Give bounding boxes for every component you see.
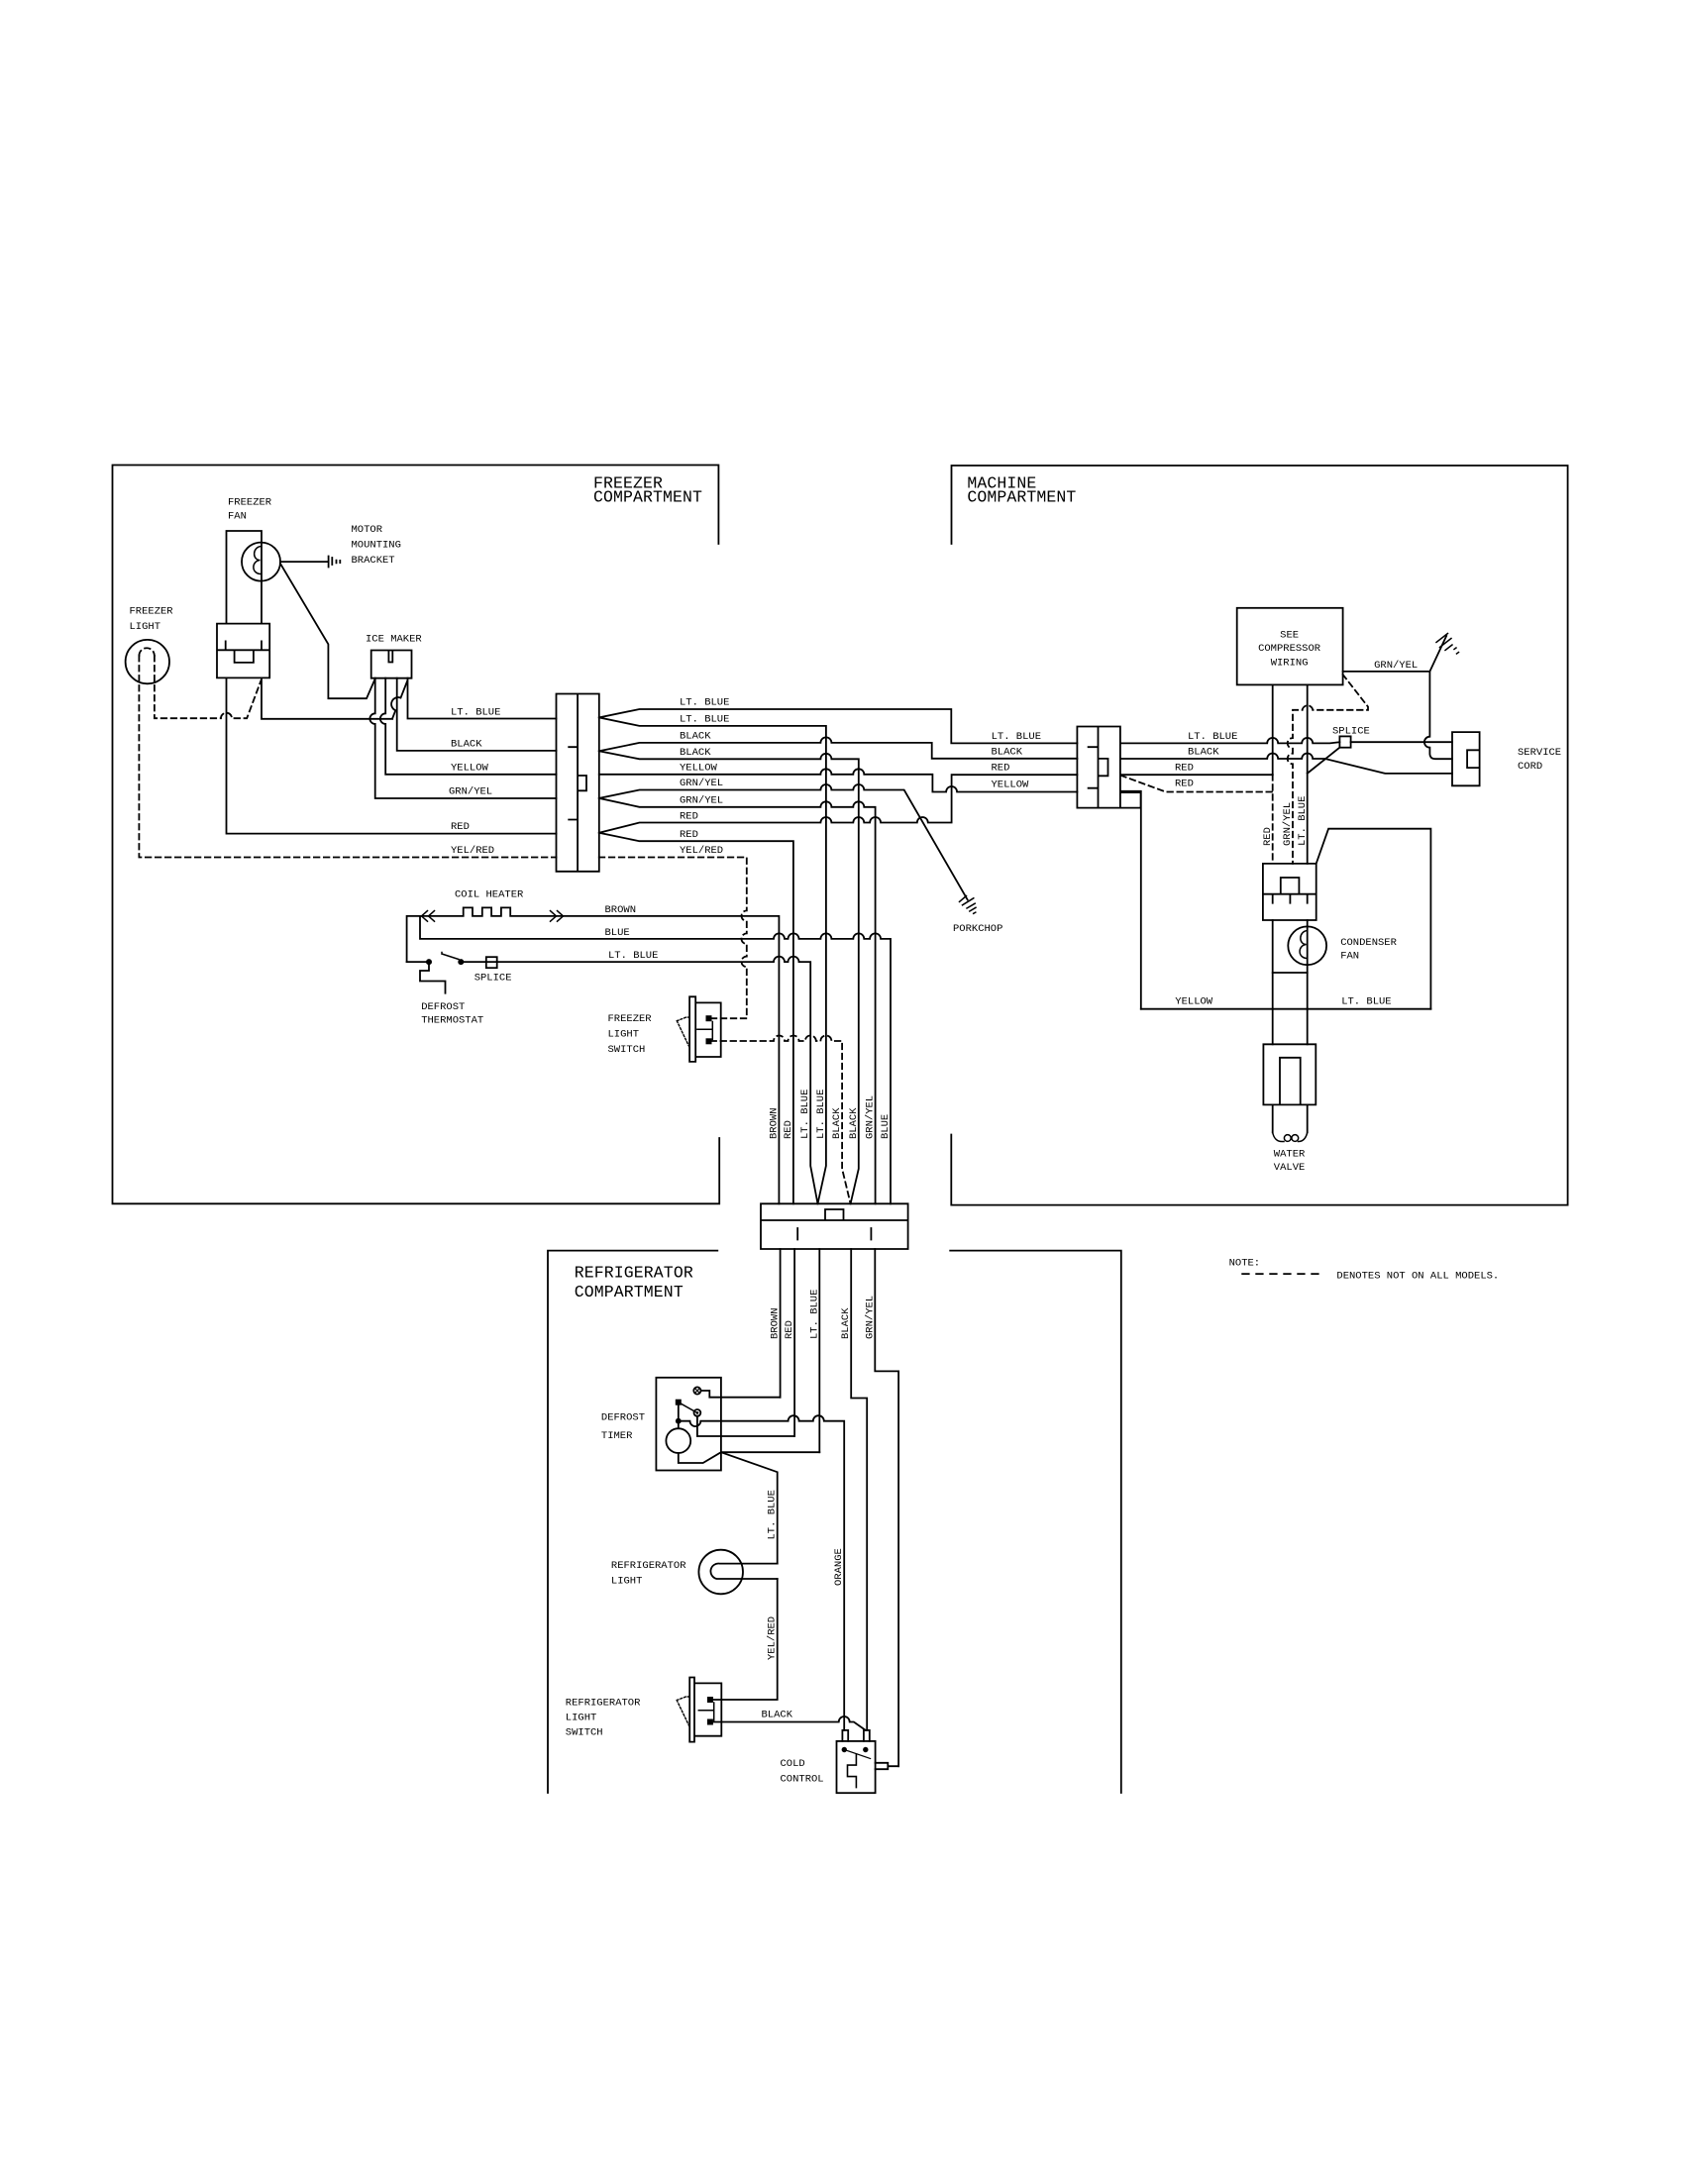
svg-text:GRN/YEL: GRN/YEL (865, 1095, 877, 1139)
compressor lead RED (1272, 684, 1274, 775)
svg-text:GRN/YEL: GRN/YEL (1282, 802, 1294, 846)
svg-text:COMPARTMENT: COMPARTMENT (575, 1283, 684, 1301)
svg-text:GRN/YEL: GRN/YEL (449, 786, 492, 798)
svg-text:ICE MAKER: ICE MAKER (366, 634, 422, 646)
wire BLACK below J3 (851, 1249, 867, 1730)
svg-text:PORKCHOP: PORKCHOP (953, 923, 1002, 935)
svg-text:YEL/RED: YEL/RED (451, 845, 494, 857)
svg-text:FREEZER: FREEZER (228, 497, 272, 509)
relay overload connector body (1263, 864, 1316, 920)
freezer light switch pin 1 (706, 1015, 712, 1021)
svg-text:SPLICE: SPLICE (474, 973, 512, 985)
defrost thermostat contact dots (426, 959, 432, 965)
svg-text:RED: RED (783, 1120, 794, 1139)
splice square on LT. BLUE (486, 957, 497, 968)
see compressor wiring box (1237, 608, 1343, 685)
wire freezer light left lead YEL/RED (dashed) (139, 656, 556, 858)
wire LT. BLUE below J3 (818, 1249, 820, 1452)
wire YELLOW / LT. BLUE bottom run (1141, 1008, 1431, 1010)
svg-text:LT. BLUE: LT. BLUE (815, 1090, 827, 1139)
wire splice diagonal to compressor lead (1308, 748, 1340, 774)
defrost timer motor (666, 1428, 690, 1453)
svg-text:BLACK: BLACK (762, 1710, 793, 1721)
svg-text:LT. BLUE: LT. BLUE (808, 1290, 820, 1339)
svg-text:RED: RED (784, 1320, 795, 1339)
water valve solenoid leads (1273, 1104, 1308, 1132)
defrost thermostat stem (420, 965, 446, 993)
svg-text:SEE: SEE (1280, 630, 1299, 642)
freezer light switch body (689, 996, 721, 1062)
defrost timer pin D (676, 1418, 682, 1424)
svg-text:LT. BLUE: LT. BLUE (1341, 996, 1391, 1008)
svg-text:BROWN: BROWN (605, 904, 637, 916)
svg-text:BLUE: BLUE (605, 927, 630, 939)
freezer fan connector plug (217, 624, 269, 678)
svg-text:DENOTES NOT ON ALL MODELS.: DENOTES NOT ON ALL MODELS. (1336, 1271, 1499, 1283)
svg-text:BLUE: BLUE (880, 1114, 892, 1139)
svg-text:THERMOSTAT: THERMOSTAT (421, 1015, 483, 1027)
defrost thermostat arm (442, 953, 459, 960)
svg-text:MOTOR: MOTOR (352, 524, 383, 536)
svg-text:REFRIGERATOR: REFRIGERATOR (566, 1698, 641, 1710)
defrost timer pin B to pin D link (678, 1405, 680, 1418)
svg-text:YELLOW: YELLOW (680, 763, 718, 775)
ice maker pin 4 wire to BLACK (397, 678, 557, 751)
cold control bellows (848, 1754, 857, 1788)
refrigerator light circle (698, 1550, 743, 1595)
wire BROWN below J3 (780, 1249, 782, 1398)
wire YELLOW stub J2 to condenser circuit (1120, 791, 1141, 1009)
svg-text:BLACK: BLACK (1188, 747, 1219, 759)
refrigerator compartment border (548, 1251, 1121, 1793)
svg-text:REFRIGERATOR: REFRIGERATOR (611, 1560, 686, 1572)
wire GRN/YEL below J3 (875, 1249, 898, 1766)
svg-text:LT. BLUE: LT. BLUE (1297, 796, 1309, 846)
svg-text:FAN: FAN (1340, 951, 1359, 963)
wire defrost timer motor to LT. BLUE junction (679, 1452, 820, 1463)
wire fork RED upper (599, 775, 1078, 833)
condenser fan frame (1273, 920, 1308, 973)
motor mounting bracket symbol (329, 557, 341, 568)
svg-text:BLACK: BLACK (680, 731, 711, 743)
svg-text:LT. BLUE: LT. BLUE (451, 707, 500, 719)
svg-text:YELLOW: YELLOW (992, 780, 1030, 791)
ice maker body (371, 651, 412, 678)
freezer fan motor coil (254, 547, 262, 574)
wire BROWN coil heater line (407, 907, 780, 1203)
svg-text:SWITCH: SWITCH (566, 1727, 603, 1739)
svg-text:BROWN: BROWN (768, 1107, 780, 1139)
condenser fan coil (1300, 931, 1308, 959)
defrost timer pin C (694, 1409, 701, 1416)
svg-text:GRN/YEL: GRN/YEL (1374, 660, 1418, 672)
svg-text:DEFROST: DEFROST (601, 1412, 645, 1424)
freezer light switch bracket (697, 1022, 712, 1040)
connector J2 body (1077, 727, 1140, 808)
wire condenser to water valve right (1307, 973, 1309, 1044)
wire BLACK J2 to service cord (1120, 754, 1452, 774)
svg-text:YELLOW: YELLOW (451, 763, 489, 775)
svg-text:CONDENSER: CONDENSER (1340, 937, 1397, 949)
wire LT. BLUE J2 to splice (1120, 738, 1340, 744)
ground screw hatching (1436, 634, 1459, 655)
svg-text:GRN/YEL: GRN/YEL (680, 795, 723, 807)
svg-text:LIGHT: LIGHT (566, 1713, 597, 1724)
wire GRN/YEL down to service cord (1424, 672, 1452, 759)
wire RED dashed J2 to relay (1120, 776, 1272, 792)
wire splice to service cord LT. BLUE (1351, 741, 1452, 743)
svg-text:FREEZER: FREEZER (130, 606, 174, 618)
compressor lead RED dashed lower (1272, 775, 1274, 864)
svg-text:BLACK: BLACK (831, 1107, 843, 1139)
svg-text:LT. BLUE: LT. BLUE (608, 950, 658, 962)
defrost timer switch arm (679, 1403, 695, 1412)
machine compartment border (951, 466, 1567, 1205)
service cord plug (1452, 732, 1480, 785)
svg-text:WIRING: WIRING (1271, 658, 1309, 670)
wire fan motor to ice maker pin 1 (280, 564, 374, 698)
refrigerator light filament (710, 1564, 777, 1579)
ice maker pin 2 wire to GRN/YEL (369, 678, 556, 798)
wire LT. BLUE diagonal to ice maker pin 4 (with hop loop) (391, 680, 407, 718)
wire condenser to water valve left (1272, 973, 1274, 1044)
freezer light circle (126, 640, 169, 683)
refrigerator light switch bracket (698, 1703, 713, 1720)
svg-text:MOUNTING: MOUNTING (352, 540, 401, 552)
freezer compartment border (113, 466, 720, 1204)
svg-text:COMPRESSOR: COMPRESSOR (1258, 643, 1321, 655)
wire fork BLACK upper (599, 737, 1078, 758)
svg-text:LT. BLUE: LT. BLUE (767, 1490, 779, 1539)
water valve connector body (1263, 1044, 1316, 1104)
connector J3 body (761, 1203, 908, 1249)
coil heater break arrows (422, 911, 564, 922)
svg-text:NOTE:: NOTE: (1229, 1258, 1261, 1270)
refrigerator light switch pin 2 (707, 1719, 713, 1725)
freezer light switch pin 2 (706, 1038, 712, 1044)
svg-text:RED: RED (992, 763, 1010, 775)
svg-text:ORANGE: ORANGE (833, 1548, 845, 1586)
cold control switch arm (844, 1750, 870, 1759)
wire fork GRN/YEL upper to porkchop (599, 784, 968, 899)
wire fan connector to RED line (227, 677, 557, 833)
svg-text:GRN/YEL: GRN/YEL (680, 778, 723, 789)
defrost timer box (656, 1378, 721, 1471)
freezer fan motor circle (242, 543, 280, 581)
svg-text:BLACK: BLACK (992, 747, 1023, 759)
water valve solenoid coil (1273, 1132, 1284, 1141)
svg-text:REFRIGERATOR: REFRIGERATOR (575, 1264, 693, 1283)
wire refrigerator light switch pin2 BLACK to cold control (713, 1716, 866, 1730)
svg-text:LIGHT: LIGHT (611, 1576, 643, 1588)
svg-text:COLD: COLD (781, 1758, 805, 1770)
svg-text:BLACK: BLACK (451, 739, 482, 751)
svg-text:LT. BLUE: LT. BLUE (799, 1090, 811, 1139)
wire RED below J3 (793, 1249, 795, 1436)
wire fork GRN/YEL lower (599, 798, 876, 1203)
svg-text:RED: RED (680, 829, 698, 841)
svg-text:SWITCH: SWITCH (608, 1044, 646, 1056)
svg-text:BROWN: BROWN (770, 1307, 782, 1339)
condenser fan circle (1288, 926, 1326, 965)
ice maker pin 5 wire to LT. BLUE (408, 678, 557, 719)
svg-text:SPLICE: SPLICE (1332, 726, 1370, 738)
svg-text:COMPARTMENT: COMPARTMENT (967, 488, 1076, 507)
wire BLUE heater line (420, 916, 891, 1203)
connector J1 body (557, 694, 599, 872)
wire fan connector to LT. BLUE line (262, 677, 392, 718)
cold control pin L (842, 1747, 847, 1752)
wire YELLOW through line (599, 769, 1078, 791)
cold control body (837, 1741, 876, 1793)
svg-text:WATER: WATER (1274, 1149, 1306, 1161)
svg-text:RED: RED (451, 821, 470, 833)
refrigerator light switch plunger (677, 1697, 689, 1725)
wire relay to condenser LT. BLUE (1316, 829, 1431, 1009)
svg-text:LT. BLUE: LT. BLUE (992, 731, 1041, 743)
svg-text:YEL/RED: YEL/RED (767, 1616, 779, 1660)
defrost timer pin B (676, 1400, 682, 1405)
svg-text:CONTROL: CONTROL (781, 1774, 824, 1786)
svg-text:DEFROST: DEFROST (421, 1001, 465, 1013)
cold control pin R (863, 1747, 868, 1752)
compressor lead LT. BLUE (1307, 684, 1309, 864)
wire freezer light switch pin2 to BLACK (dashed) (711, 1036, 851, 1204)
wire fan to motor mounting bracket (280, 561, 328, 563)
svg-text:GRN/YEL: GRN/YEL (864, 1296, 876, 1339)
svg-text:RED: RED (1175, 763, 1194, 775)
svg-text:LT. BLUE: LT. BLUE (680, 713, 729, 725)
defrost timer pin A (693, 1387, 700, 1394)
freezer fan motor frame (227, 531, 263, 624)
wire fork BLACK lower (599, 751, 859, 1203)
wire junction to refrigerator light LT. BLUE (721, 1452, 778, 1563)
svg-text:RED: RED (680, 810, 698, 822)
svg-text:RED: RED (1262, 827, 1274, 846)
refrigerator light switch pin 1 (707, 1697, 713, 1703)
cold control terminal stubs (842, 1730, 869, 1741)
svg-text:FREEZER: FREEZER (608, 1013, 653, 1025)
freezer light filament (dashed) (139, 648, 155, 656)
wire fork LT. BLUE lower (599, 717, 826, 1203)
svg-text:BLACK: BLACK (848, 1107, 860, 1139)
wire defrost timer pin A to BROWN (701, 1391, 781, 1398)
svg-text:BLACK: BLACK (680, 747, 711, 759)
refrigerator light switch body (689, 1678, 721, 1742)
wire defrost timer pin C to RED (697, 1416, 794, 1436)
svg-text:LT. BLUE: LT. BLUE (680, 697, 729, 709)
wire refrigerator light to YEL/RED (712, 1579, 778, 1700)
svg-text:COIL HEATER: COIL HEATER (455, 889, 524, 901)
cold control capillary stub (876, 1763, 899, 1769)
svg-text:CORD: CORD (1518, 761, 1542, 773)
svg-text:VALVE: VALVE (1274, 1162, 1306, 1174)
compressor lead GRN/YEL dashed (1288, 675, 1368, 864)
wire fork RED lower (599, 833, 793, 1204)
wire fork YEL/RED (dashed) (599, 858, 747, 1019)
note dashed sample (1242, 1273, 1324, 1275)
splice square (1339, 736, 1350, 747)
wire fork LT. BLUE upper (599, 709, 1078, 743)
porkchop ground symbol (960, 896, 977, 914)
svg-text:COMPARTMENT: COMPARTMENT (593, 488, 702, 507)
svg-text:YELLOW: YELLOW (1175, 996, 1213, 1008)
svg-text:FAN: FAN (228, 511, 247, 523)
wire RED J2 to compressor lead (1120, 774, 1273, 776)
svg-text:SERVICE: SERVICE (1518, 747, 1561, 759)
freezer light switch plunger (677, 1017, 689, 1046)
svg-text:BLACK: BLACK (840, 1307, 852, 1339)
wire freezer light right lead (dashed) with hop (155, 656, 262, 718)
svg-text:LIGHT: LIGHT (608, 1029, 640, 1041)
svg-text:RED: RED (1175, 779, 1194, 790)
svg-text:LT. BLUE: LT. BLUE (1188, 731, 1237, 743)
svg-text:LIGHT: LIGHT (130, 621, 161, 633)
ice maker pin 3 wire to YELLOW (380, 678, 557, 775)
wire defrost timer pin D to ORANGE (682, 1415, 845, 1730)
svg-text:BRACKET: BRACKET (352, 555, 395, 567)
wire LT. BLUE heater line (407, 957, 818, 1204)
svg-text:TIMER: TIMER (601, 1430, 633, 1442)
wire GRN/YEL compressor to ground (1343, 636, 1447, 672)
svg-text:YEL/RED: YEL/RED (680, 845, 723, 857)
